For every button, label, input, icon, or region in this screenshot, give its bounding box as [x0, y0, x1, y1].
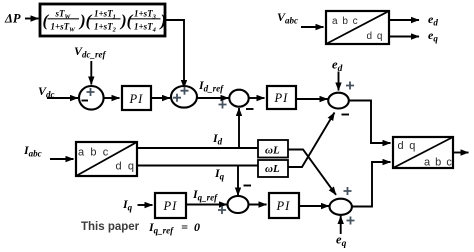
svg-text:Id_ref: Id_ref: [198, 78, 224, 94]
svg-text:PI: PI: [129, 92, 144, 106]
svg-text:Vdc_ref: Vdc_ref: [74, 44, 107, 60]
svg-text:)(: )(: [78, 11, 93, 30]
svg-text:Iabc: Iabc: [23, 143, 42, 159]
svg-text:Iq_ref: Iq_ref: [192, 187, 218, 203]
svg-text:Iq: Iq: [122, 197, 133, 213]
svg-text:Id: Id: [212, 131, 223, 147]
svg-text:ΔP: ΔP: [4, 12, 21, 26]
svg-text:PI: PI: [274, 91, 289, 105]
svg-text:)(: )(: [119, 11, 134, 30]
svg-text:PI: PI: [163, 199, 178, 213]
svg-text:a b c: a b c: [424, 157, 453, 169]
svg-text:1+sT4: 1+sT4: [134, 22, 157, 34]
svg-text:ωL: ωL: [265, 163, 280, 175]
svg-text:(: (: [43, 11, 50, 30]
svg-text:Vabc: Vabc: [277, 10, 298, 26]
svg-text:Vdc: Vdc: [38, 84, 55, 100]
svg-text:1+sT2: 1+sT2: [94, 22, 117, 34]
svg-text:a b c: a b c: [78, 147, 110, 159]
svg-text:eq: eq: [428, 28, 438, 44]
svg-text:Iq_ref=0: Iq_ref=0: [148, 220, 200, 236]
svg-text:a b c: a b c: [332, 16, 359, 27]
svg-text:Iq: Iq: [214, 166, 225, 182]
svg-text:d q: d q: [398, 140, 417, 152]
svg-text:ωL: ωL: [265, 145, 280, 157]
svg-text:1+sTW: 1+sTW: [51, 22, 77, 34]
svg-text:ed: ed: [332, 58, 343, 75]
svg-text:d q: d q: [116, 161, 136, 173]
svg-text:ed: ed: [428, 12, 438, 28]
svg-text:PI: PI: [276, 199, 291, 213]
svg-text:This paper: This paper: [81, 221, 140, 233]
svg-text:): ): [159, 11, 167, 30]
svg-text:d q: d q: [367, 31, 384, 42]
svg-text:eq: eq: [336, 233, 347, 250]
